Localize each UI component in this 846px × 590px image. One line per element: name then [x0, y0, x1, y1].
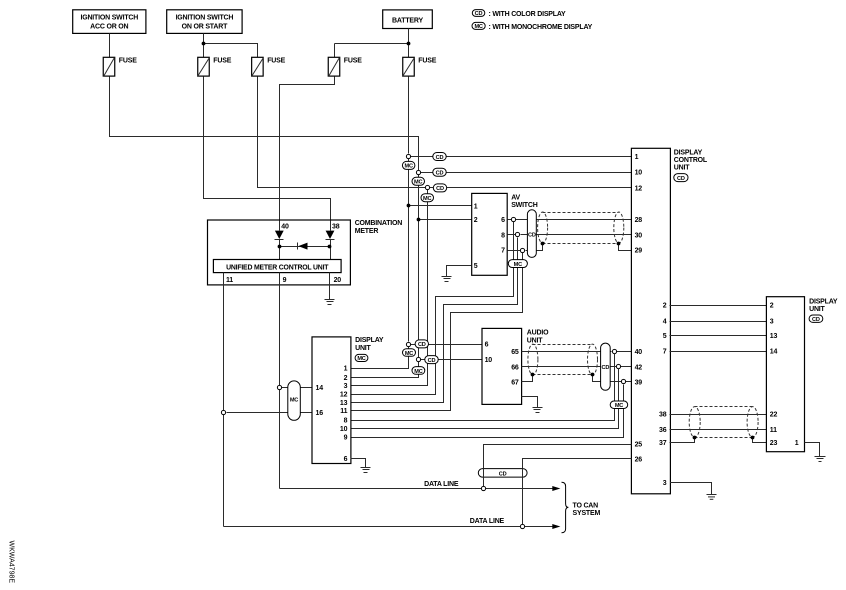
node D1 junction [278, 245, 282, 249]
node shield drain right [617, 242, 621, 246]
wire junction to fuse F4 [335, 44, 409, 58]
svg-text:20: 20 [334, 277, 342, 284]
combination meter box [208, 220, 403, 285]
svg-text:CD: CD [499, 471, 507, 477]
svg-text:11: 11 [340, 408, 347, 415]
MC oval split 1 [402, 161, 415, 169]
connector circle data line 2 [520, 524, 524, 528]
svg-text:13: 13 [340, 400, 348, 407]
svg-text:UNIT: UNIT [809, 306, 825, 313]
svg-text:2: 2 [344, 375, 348, 382]
svg-text:MC: MC [423, 196, 431, 202]
CD shield oval audio [601, 343, 611, 390]
svg-text:38: 38 [659, 412, 667, 419]
wire AV MC branch pin8 to display unit pin 13 [351, 238, 518, 403]
ground AV switch [442, 277, 452, 282]
ground audio unit [533, 408, 543, 413]
wire DCU pin 2 to display unit right pin 2 [670, 305, 767, 307]
wire unified pin 20 to ground [329, 273, 331, 300]
wire fuse F1 to connector split 2 [110, 77, 419, 171]
wire display unit pin 6 to ground [351, 459, 366, 468]
wire MC branch 40 to display unit pin 8 [351, 354, 615, 421]
svg-text:40: 40 [281, 224, 289, 231]
svg-text:5: 5 [663, 333, 667, 340]
wire to AV switch pin 1 [409, 205, 472, 207]
ground DU right [815, 457, 826, 462]
to CAN system label [573, 502, 601, 517]
wire DCU pin 38 to display unit right pin 22 [670, 414, 767, 416]
wire CD branch split3 to display control unit pin 12 [430, 187, 632, 189]
svg-text:3: 3 [770, 319, 774, 326]
svg-text:1: 1 [474, 203, 478, 210]
connector circle split 3 [425, 185, 429, 189]
diode D3 cross link [298, 243, 308, 250]
svg-text:10: 10 [635, 170, 643, 177]
svg-text:1: 1 [795, 440, 799, 447]
wire shield drain to display unit right pin 23 [753, 438, 767, 443]
svg-text:DATA LINE: DATA LINE [470, 518, 505, 525]
wire DCU pin 3 to ground [670, 483, 712, 495]
node audio shield drain left [531, 373, 535, 377]
legend CD symbol [472, 10, 566, 18]
svg-text:12: 12 [340, 392, 348, 399]
svg-text:MC: MC [414, 180, 422, 186]
wire audio pin 65 to display control unit pin 40 [522, 351, 632, 353]
connector circle AV pin 6 [511, 217, 515, 221]
svg-text:28: 28 [635, 217, 643, 224]
svg-text:UNIFIED METER CONTROL UNIT: UNIFIED METER CONTROL UNIT [226, 264, 329, 271]
svg-text:MC: MC [474, 24, 482, 30]
svg-text:MC: MC [615, 403, 623, 409]
svg-text:7: 7 [501, 248, 505, 255]
svg-text:DISPLAY: DISPLAY [355, 337, 384, 344]
wire D1 to unified meter control unit [279, 240, 281, 260]
svg-text:: WITH MONOCHROME DISPLAY: : WITH MONOCHROME DISPLAY [489, 24, 593, 31]
svg-text:IGNITION SWITCH: IGNITION SWITCH [80, 15, 138, 22]
node right shield drain left [693, 436, 697, 440]
wire data line 2 [224, 526, 553, 528]
CD oval split 2 [433, 168, 446, 176]
wire AV pin 7 to shield drain left [508, 244, 543, 251]
connector circle DCU pin 39 [621, 379, 625, 383]
MC oval audio DCU branch [610, 401, 628, 409]
wire AV pin 8 to display control unit pin 30 [508, 234, 632, 236]
svg-text:4: 4 [663, 319, 667, 326]
wire CD branch split2 to display control unit pin 10 [421, 172, 632, 174]
CD oval display unit right label [809, 315, 823, 323]
battery box [383, 10, 433, 29]
MC oval AV branch [508, 260, 527, 268]
svg-text:14: 14 [770, 349, 778, 356]
MC oval split 2 [412, 177, 425, 185]
connector circle AV pin 8 [515, 232, 519, 236]
CD oval split 3 [433, 184, 446, 192]
CD oval audio split 2 [425, 356, 438, 364]
display unit right box [766, 297, 838, 452]
shielded cable audio to display control unit [528, 344, 598, 375]
svg-text:9: 9 [283, 277, 287, 284]
svg-text:SYSTEM: SYSTEM [573, 510, 601, 517]
wire MC branch 42 to display unit pin 10 [351, 369, 619, 429]
connector circle split 2 [416, 170, 420, 174]
svg-text:2: 2 [474, 217, 478, 224]
svg-text:7: 7 [663, 349, 667, 356]
svg-text:6: 6 [344, 456, 348, 463]
wire AV pin 6 to display control unit pin 28 [508, 219, 632, 221]
svg-text:ON OR START: ON OR START [182, 23, 228, 30]
ground display unit [361, 468, 371, 473]
wire audio pin 66 to display control unit pin 42 [522, 366, 632, 368]
wire MC branch split3 down then left to display unit pin 3 [351, 190, 428, 386]
svg-text:AUDIO: AUDIO [527, 330, 549, 337]
CD oval split 1 [433, 153, 446, 161]
svg-text:DATA LINE: DATA LINE [424, 481, 459, 488]
connector circle pin 16 [221, 410, 225, 414]
svg-text:3: 3 [344, 383, 348, 390]
wire CD branch split1 to display control unit pin 1 [411, 156, 632, 158]
node audio shield drain right [591, 373, 595, 377]
MC oval display unit label [355, 354, 368, 362]
ground DCU pin 3 [707, 495, 717, 500]
connector circle AV pin 7 [520, 248, 524, 252]
svg-text:FUSE: FUSE [418, 58, 436, 65]
svg-text:CD: CD [475, 11, 483, 17]
svg-text:COMBINATION: COMBINATION [355, 220, 403, 227]
MC oval audio split 1 [403, 349, 416, 357]
svg-text:1: 1 [635, 154, 639, 161]
wire unified pin 11 down to data line 2 [223, 273, 225, 527]
node battery junction [407, 42, 411, 46]
wire shield drain right to display control unit pin 39 [593, 375, 632, 382]
svg-text:11: 11 [770, 427, 777, 434]
node shield drain left [541, 242, 545, 246]
svg-text:FUSE: FUSE [267, 58, 285, 65]
connector circle split 1 [406, 154, 410, 158]
wire DCU pin 5 to display unit right pin 13 [670, 335, 767, 337]
wire to AV switch pin 2 [419, 219, 472, 221]
svg-text:TO CAN: TO CAN [573, 502, 599, 509]
connector circle pin 14 [277, 385, 281, 389]
svg-text:10: 10 [340, 426, 348, 433]
wire AV MC branch pin7 to display unit pin 11 [351, 253, 523, 411]
wire DCU pin 4 to display unit right pin 3 [670, 321, 767, 323]
svg-text:36: 36 [659, 427, 667, 434]
wire MC branch split2 down to audio split 2 [418, 175, 420, 358]
svg-text:26: 26 [635, 457, 643, 464]
wire fuse F4 to combination meter pin 40 [280, 77, 335, 231]
svg-text:66: 66 [511, 364, 519, 371]
wire data line 1 [280, 488, 553, 490]
svg-text:FUSE: FUSE [213, 58, 231, 65]
AV switch box [472, 193, 538, 275]
svg-text:14: 14 [316, 385, 324, 392]
wire ACC box to fuse F1 [109, 34, 111, 58]
svg-text:16: 16 [316, 410, 324, 417]
wire fuse F3 to connector split 3 [258, 77, 426, 188]
wire shield drain right to display control unit pin 29 [619, 244, 632, 251]
svg-text:CD: CD [528, 233, 536, 239]
svg-text:WKWA4798E: WKWA4798E [8, 541, 15, 584]
node right shield drain right [751, 436, 755, 440]
wire DU right pin 1 to ground [805, 443, 820, 457]
wire display unit pin 16 [227, 412, 313, 414]
svg-text:FUSE: FUSE [344, 58, 362, 65]
svg-text:22: 22 [770, 412, 778, 419]
svg-text:39: 39 [635, 379, 643, 386]
svg-text:30: 30 [635, 232, 643, 239]
wire AV MC branch pin6 to display unit pin 12 [351, 222, 514, 395]
wire fuse F5 to connector split 1 [408, 77, 410, 154]
svg-text:5: 5 [474, 263, 478, 270]
arrow data line 1 [552, 486, 560, 491]
svg-text:38: 38 [332, 224, 340, 231]
svg-text:CONTROL: CONTROL [674, 157, 708, 164]
svg-text:DISPLAY: DISPLAY [809, 298, 838, 305]
wire DCU pin 7 to display unit right pin 14 [670, 351, 767, 353]
svg-text:CD: CD [436, 186, 444, 192]
connector circle audio split 2 [416, 357, 420, 361]
connector circle audio split 1 [406, 342, 410, 346]
brace to CAN system [562, 482, 569, 533]
node AV pin1 junction [407, 204, 411, 208]
svg-text:2: 2 [663, 303, 667, 310]
display unit box left [312, 337, 384, 464]
wire audio MC branch 2 to display unit pin 2 [351, 362, 419, 378]
svg-text:FUSE: FUSE [119, 58, 137, 65]
ground unified pin 20 [325, 300, 335, 305]
svg-text:DISPLAY: DISPLAY [674, 149, 703, 156]
svg-text:CD: CD [436, 171, 444, 177]
svg-text:CD: CD [602, 365, 610, 371]
svg-text:MC: MC [405, 164, 413, 170]
wire AV pin 5 to ground [447, 266, 472, 277]
svg-text:BATTERY: BATTERY [392, 17, 423, 24]
wire fuse F2 to combination meter pin 38 [204, 77, 331, 231]
svg-text:CD: CD [428, 358, 436, 364]
wire DCU pin 37 to shield drain [670, 438, 695, 443]
svg-text:10: 10 [485, 357, 493, 364]
connector circle DCU pin 40 [612, 349, 616, 353]
diode D1 pin 40 [275, 224, 289, 240]
svg-text:SWITCH: SWITCH [511, 202, 538, 209]
svg-text:6: 6 [485, 342, 489, 349]
svg-text:13: 13 [770, 333, 778, 340]
svg-text:IGNITION SWITCH: IGNITION SWITCH [176, 15, 234, 22]
wire audio CD branch 1 to audio unit pin 6 [411, 344, 483, 346]
CD oval display control unit label [674, 174, 688, 182]
fuse F2 [198, 57, 232, 76]
svg-text:UNIT: UNIT [355, 345, 371, 352]
diode D2 pin 38 [326, 224, 340, 240]
svg-text:MC: MC [290, 398, 298, 404]
fuse F5 [403, 57, 437, 76]
wire DCU pin 25 to data line 1 [484, 445, 632, 487]
wire MC branch 39 to display unit pin 9 [351, 385, 624, 438]
wire audio pin 67 to shield drain left [522, 375, 533, 382]
fuse F4 [328, 57, 362, 76]
svg-text:29: 29 [635, 248, 643, 255]
ignition switch ON/START box [167, 10, 242, 34]
svg-text:CD: CD [677, 176, 685, 182]
CD shield oval AV [527, 210, 536, 258]
fuse F1 [103, 57, 137, 76]
svg-text:CD: CD [436, 155, 444, 161]
audio unit box [482, 328, 549, 404]
svg-text:CD: CD [812, 317, 820, 323]
svg-text:MC: MC [405, 351, 413, 357]
svg-text:MC: MC [514, 262, 522, 268]
svg-text:37: 37 [659, 440, 667, 447]
svg-text:METER: METER [355, 228, 379, 235]
fuse F3 [252, 57, 286, 76]
svg-text:9: 9 [344, 435, 348, 442]
wire battery to fuse F5 [408, 29, 410, 58]
svg-text:8: 8 [344, 418, 348, 425]
svg-text:1: 1 [344, 366, 348, 373]
unified meter control unit box [213, 260, 341, 273]
wire audio MC branch 1 to display unit pin 1 [351, 347, 409, 369]
connector circle DCU pin 42 [616, 364, 620, 368]
wire DCU pin 36 to display unit right pin 11 [670, 429, 767, 431]
svg-text:UNIT: UNIT [527, 337, 543, 344]
shielded cable DCU to display unit right [689, 407, 758, 438]
node ign junction [202, 42, 206, 46]
svg-text:40: 40 [635, 349, 643, 356]
wire audio unit ground [522, 397, 538, 408]
shielded cable AV to display control unit [538, 212, 624, 244]
CD oval audio split 1 [415, 340, 428, 348]
wire data line 1 redraw through oval [484, 469, 523, 478]
ignition switch ACC box [73, 10, 146, 34]
svg-text:3: 3 [663, 480, 667, 487]
svg-text:6: 6 [501, 217, 505, 224]
wire D2 to unified meter control unit [330, 240, 332, 260]
wire MC branch split1 down through AV pin1 node to audio split [408, 159, 410, 342]
wire display unit pin 14 [282, 387, 313, 389]
svg-text:42: 42 [635, 364, 643, 371]
svg-text:11: 11 [226, 277, 233, 284]
svg-text:8: 8 [501, 232, 505, 239]
svg-text:MC: MC [414, 369, 422, 375]
arrow data line 2 [552, 524, 560, 529]
display control unit box [631, 148, 708, 494]
svg-text:UNIT: UNIT [674, 164, 690, 171]
wire cross diode link [280, 246, 330, 248]
legend MC symbol [472, 22, 593, 30]
MC oval audio split 2 [412, 367, 425, 375]
svg-text:2: 2 [770, 303, 774, 310]
wire ON/START box to fuse F2 [203, 34, 205, 58]
svg-text:23: 23 [770, 440, 778, 447]
connector circle data line 1 [481, 486, 485, 490]
svg-text:25: 25 [635, 442, 643, 449]
wire audio CD branch 2 to audio unit pin 10 [421, 359, 483, 361]
svg-text:CD: CD [418, 342, 426, 348]
svg-text:67: 67 [511, 379, 519, 386]
MC oval split 3 [421, 194, 434, 202]
MC shield oval display unit [288, 381, 301, 420]
svg-text:12: 12 [635, 185, 643, 192]
node D2 junction [328, 245, 332, 249]
svg-text:: WITH COLOR DISPLAY: : WITH COLOR DISPLAY [489, 11, 567, 18]
svg-text:ACC OR ON: ACC OR ON [90, 23, 128, 30]
wire unified pin 9 down to data line 1 [279, 273, 281, 489]
node AV pin2 junction [417, 218, 421, 222]
wire junction to fuse F3 [204, 44, 258, 58]
svg-text:65: 65 [511, 349, 519, 356]
CD oval data line [478, 469, 527, 478]
wire DCU pin 26 to data line 2 [523, 459, 632, 525]
svg-text:AV: AV [511, 195, 520, 202]
svg-text:MC: MC [357, 356, 365, 362]
